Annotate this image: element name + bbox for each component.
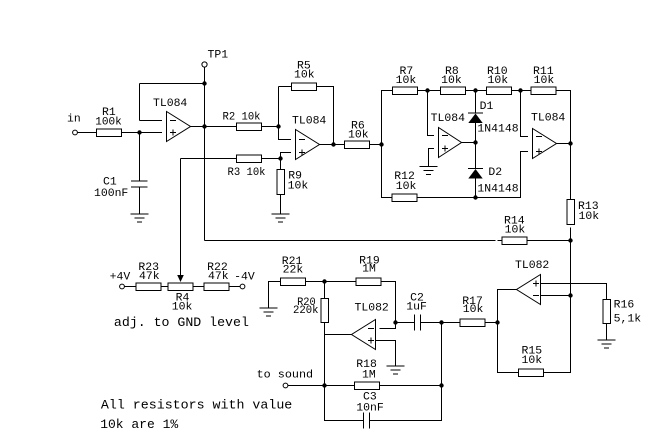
wire R10 to node G	[512, 90, 532, 92]
potentiometer R4 10k	[168, 283, 193, 314]
svg-text:47k: 47k	[208, 271, 229, 283]
ground at R21	[260, 308, 278, 316]
op-amp U4 TL084	[531, 113, 565, 159]
test point TP1	[202, 50, 228, 68]
wire R21 to node P	[306, 281, 325, 283]
node E junction dot	[425, 88, 429, 92]
wire node K down to node L	[570, 241, 572, 296]
svg-text:47k: 47k	[139, 271, 160, 283]
resistor R7 10k	[393, 66, 418, 94]
wire R1 to node A	[122, 132, 140, 134]
svg-text:-4V: -4V	[234, 272, 255, 284]
wire tee down to node Q	[324, 335, 326, 386]
svg-text:10k are 1%: 10k are 1%	[100, 417, 178, 432]
feedback junction dot	[202, 81, 206, 85]
wire node Q down to C3	[325, 386, 364, 421]
terminal +4V	[110, 272, 131, 289]
node H junction dot	[473, 140, 477, 144]
svg-text:10k: 10k	[348, 130, 369, 142]
wire R11 right down to U4 output	[556, 91, 571, 144]
svg-text:10k: 10k	[288, 181, 309, 193]
wire R18 to node R	[380, 385, 442, 387]
wire U6 + input to ground	[376, 341, 396, 366]
node L junction dot	[568, 293, 572, 297]
wire U5 output down left rail	[498, 290, 519, 373]
ground at U3 + input	[420, 167, 438, 175]
op-amp U3 TL084	[431, 113, 465, 158]
node Q junction dot	[322, 383, 326, 387]
wire U5 + input to R16	[541, 284, 607, 300]
wire node D up to R7	[382, 91, 393, 145]
resistor R23 47k	[136, 262, 161, 290]
ground under R16	[598, 340, 616, 348]
wire node E down to U3 - input	[428, 91, 435, 136]
node J junction dot	[568, 141, 572, 145]
terminal -4V	[234, 272, 255, 289]
wire TP1 line to R14	[205, 240, 496, 242]
svg-text:10k: 10k	[505, 225, 526, 237]
wire U3 output	[462, 142, 476, 144]
wire R3 horizontal	[181, 158, 237, 160]
op-amp U2 TL084	[292, 116, 326, 160]
wire +4V to R23	[125, 286, 137, 288]
svg-text:1N4148: 1N4148	[477, 184, 518, 196]
svg-text:100k: 100k	[95, 116, 122, 128]
resistor R15 10k	[519, 346, 544, 377]
wire R17 to node M	[485, 322, 498, 324]
svg-text:D1: D1	[480, 101, 494, 113]
svg-text:1M: 1M	[362, 264, 376, 276]
op-amp U6 TL082	[352, 303, 389, 350]
wire node G down to U4 - input	[521, 91, 529, 137]
wire node C down to R9	[280, 159, 282, 170]
R4 wiper arrowhead	[177, 275, 184, 282]
wire R6 to node D	[370, 144, 382, 146]
svg-text:10k: 10k	[534, 75, 555, 87]
wire node N down to node R	[441, 323, 443, 386]
resistor R1 100k	[95, 107, 122, 136]
diode D1 1N4148	[468, 101, 519, 136]
svg-text:5,1k: 5,1k	[614, 314, 642, 326]
svg-text:TP1: TP1	[208, 50, 229, 62]
wire U3 + input to ground	[429, 149, 435, 167]
svg-text:TL082: TL082	[355, 303, 389, 315]
wire U5 - input to node L	[541, 295, 571, 297]
resistor R2 10k	[223, 111, 262, 130]
wire R23 to R4	[161, 286, 168, 288]
wire U1 feedback horizontal	[140, 83, 205, 85]
wire R3 left down to R4 wiper	[180, 159, 182, 276]
ground under C1	[131, 214, 149, 222]
capacitor C1 100nF	[94, 177, 148, 200]
node O junction dot	[393, 320, 397, 324]
wire R8 to node F	[466, 90, 487, 92]
capacitor C3 10nF	[356, 392, 384, 429]
wire R3 to node C	[262, 158, 281, 160]
node G junction dot	[518, 88, 522, 92]
wire U1 - input	[140, 120, 163, 122]
resistor R9 10k	[277, 170, 309, 195]
resistor R6 10k	[345, 121, 370, 149]
wire node O to C2	[396, 322, 415, 324]
resistor R21 22k	[281, 256, 306, 285]
svg-text:10k: 10k	[396, 75, 417, 87]
svg-text:1M: 1M	[362, 370, 376, 382]
wire R4 to R22	[193, 286, 204, 288]
wire node D down to R12	[382, 145, 393, 198]
wire node B down to U2 - input	[279, 127, 292, 140]
svg-text:10k: 10k	[579, 211, 600, 223]
resistor R17 10k	[460, 296, 485, 326]
svg-text:10k: 10k	[488, 75, 509, 87]
input terminal "in"	[67, 114, 81, 135]
node P junction dot	[322, 279, 326, 283]
node I junction dot	[473, 195, 477, 199]
resistor R16 5,1k	[603, 300, 642, 326]
diode D2 1N4148	[468, 167, 519, 196]
node M junction dot	[495, 320, 499, 324]
svg-text:adj. to GND level: adj. to GND level	[114, 315, 249, 330]
wire C2 to R17	[421, 322, 461, 324]
wire node A down to C1	[139, 133, 141, 182]
wire node C up to U2 + input	[281, 153, 292, 159]
wire to R5 left	[279, 86, 292, 88]
wire D1 to node H	[475, 123, 477, 143]
wire R21 left to ground	[269, 282, 281, 309]
node N junction dot	[439, 320, 443, 324]
svg-text:TL084: TL084	[153, 98, 187, 110]
wire stub to R14	[498, 240, 503, 242]
svg-text:C1: C1	[103, 177, 117, 189]
resistor R13 10k	[567, 200, 600, 225]
resistor R10 10k	[487, 66, 512, 94]
node C junction dot	[278, 156, 282, 160]
wire R22 to -4V	[229, 286, 240, 288]
op-amp U5 TL082	[515, 260, 549, 305]
svg-text:10k: 10k	[172, 302, 193, 314]
wire R7 to node E	[418, 90, 441, 92]
node R junction dot	[439, 383, 443, 387]
svg-text:1N4148: 1N4148	[477, 124, 518, 136]
svg-text:10k: 10k	[463, 304, 484, 316]
wire U2 output to R6	[320, 144, 345, 146]
resistor R18 1M	[355, 359, 380, 389]
wire R5 right to U2 output node	[317, 87, 334, 145]
resistor R3 10k	[228, 155, 266, 179]
ground at U6 + input	[387, 366, 405, 374]
wire node P down to R20	[324, 282, 326, 299]
wire node J down to R13	[570, 144, 572, 200]
op-amp U1 TL084	[153, 98, 191, 142]
node A junction dot	[137, 130, 141, 134]
wire R16 to ground	[606, 324, 608, 341]
svg-text:220k: 220k	[293, 305, 319, 317]
svg-text:1uF: 1uF	[406, 302, 427, 314]
U2 output junction dot	[331, 142, 335, 146]
wire R12 to U4 + input	[417, 152, 528, 198]
wire node Q to R18	[325, 385, 355, 387]
resistor R22 47k	[204, 262, 229, 290]
node K junction dot	[568, 238, 572, 242]
wire U1 feedback vertical	[139, 84, 141, 121]
capacitor C2 1uF	[406, 293, 427, 331]
wire R2 to node B	[262, 126, 279, 128]
wire in to R1	[78, 132, 97, 134]
svg-text:D2: D2	[488, 167, 502, 179]
wire R9 to ground	[280, 195, 282, 215]
wire C1 to ground	[139, 187, 141, 214]
wire TP1 vertical down	[204, 68, 206, 241]
wire U4 output to node J	[557, 143, 571, 145]
resistor R11 10k	[531, 66, 556, 94]
svg-text:TL082: TL082	[515, 260, 549, 272]
wire to sound to node Q	[288, 385, 325, 387]
wire node P to R19	[325, 281, 357, 283]
resistor R5 10k	[292, 61, 317, 91]
svg-text:TL084: TL084	[531, 113, 565, 125]
svg-text:10k: 10k	[294, 70, 315, 82]
terminal to sound	[257, 370, 314, 388]
wire node B up to R5	[278, 87, 280, 127]
svg-text:+4V: +4V	[110, 272, 131, 284]
wire node L down to R15 right corner	[544, 296, 571, 373]
svg-text:10k: 10k	[441, 75, 462, 87]
resistor R8 10k	[441, 66, 466, 94]
wire R13 to node K	[570, 228, 572, 241]
node B junction dot	[276, 124, 280, 128]
svg-text:in: in	[67, 114, 81, 126]
svg-text:TL084: TL084	[292, 116, 326, 128]
wire U6 output to tee	[325, 334, 352, 336]
svg-text:10nF: 10nF	[356, 403, 384, 415]
svg-text:100nF: 100nF	[94, 188, 128, 200]
svg-text:10k: 10k	[522, 355, 543, 367]
wire R14 to node K	[527, 240, 571, 242]
svg-text:R16: R16	[614, 300, 635, 312]
svg-text:TL084: TL084	[431, 113, 465, 125]
U1 output junction dot	[202, 124, 206, 128]
wire R20 down to U6 output tee	[324, 323, 326, 335]
svg-text:R2 10k: R2 10k	[223, 111, 261, 123]
resistor R19 1M	[356, 256, 381, 286]
ground under R9	[272, 214, 290, 222]
wire node H down to D2	[475, 143, 477, 169]
svg-text:10k: 10k	[396, 181, 417, 193]
svg-text:All resistors with value: All resistors with value	[101, 398, 292, 413]
wire C3 to node R	[370, 386, 442, 421]
svg-text:22k: 22k	[283, 265, 304, 277]
svg-text:to sound: to sound	[257, 370, 314, 382]
wire R19 right down to U6 - input	[380, 282, 396, 329]
node D junction dot	[379, 142, 383, 146]
wire U1 output	[191, 126, 237, 128]
resistor R20 220k	[293, 297, 328, 323]
wire node A to op-amp U1 + input	[140, 132, 163, 134]
wire node F down to D1	[475, 91, 477, 114]
resistor R12 10k	[392, 171, 417, 201]
node F junction dot	[473, 88, 477, 92]
wire D2 to node I	[475, 179, 477, 198]
resistor R14 10k	[502, 216, 527, 245]
svg-text:R3 10k: R3 10k	[228, 167, 266, 179]
